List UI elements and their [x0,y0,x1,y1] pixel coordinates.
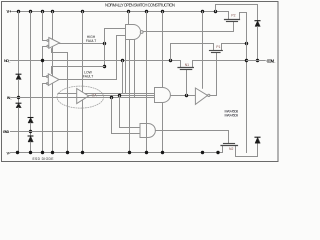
node G2 output / N1 gate [185,94,188,97]
wire high comparator return to V- [52,49,68,153]
svg-text:GND: GND [3,130,10,134]
node COM / diode column [256,59,259,62]
wire NO node up to high comparator input [43,47,47,61]
node V+ / clamp diode branch [214,10,217,13]
wire bias column x146 (V+ to V-) [146,12,148,153]
wire fault node down to NO sense joint [104,44,106,67]
wire GND line [11,131,83,133]
wire G2 output [171,95,195,97]
transistor N2 [221,144,238,157]
svg-text:FAULT: FAULT [86,39,96,43]
node ESD column 1 / IN line [17,96,20,99]
wire ESD column 2 upper segment [30,12,32,118]
diode D1a on ESD column 1 [16,74,21,79]
node V- / bias column x162 [161,151,164,154]
wire bias column x82 (V+ to V-) [82,12,84,153]
wire V- reference into low comparator input [43,84,47,153]
nand gate G1 [126,25,144,40]
wire switch node line N1 to COM [193,60,247,62]
node IN line tee [110,96,113,99]
svg-text:P2: P2 [231,14,235,18]
node high fault output tee [103,42,106,45]
wire V+ bypass to clamp diode D4 [216,5,258,21]
svg-text:N1: N1 [185,63,189,67]
node GND line / ESD column 2 [29,130,32,133]
node V- / comparator reference [41,151,44,154]
svg-text:N2: N2 [229,147,233,151]
node V+ / bias column x52 [51,10,54,13]
wire OA output bus line B [89,95,155,97]
node V- / bias column x146 [145,151,148,154]
comparator U2 LOW FAULT [46,74,59,86]
node COM / clamp column [245,59,248,62]
node NO / comparator tap [41,59,44,62]
svg-text:V+: V+ [7,9,13,14]
node NO / P1 parallel branch [169,59,172,62]
wire NAND output [143,23,233,32]
svg-text:MAX4509: MAX4509 [225,114,239,118]
svg-text:P1: P1 [216,45,220,49]
node V- / ESD column 1 [16,151,19,154]
wire NAND bottom-right pull-down to bus [134,40,136,98]
node V- / inverter return [201,151,204,154]
transistor P2 [225,12,240,22]
border frame [2,2,279,162]
transistor P1 [210,44,223,53]
wire V- rail [10,152,223,154]
wire V+ reference into high comparator inverting input [43,12,47,41]
wire IN logic line (bus line C) [11,97,155,99]
node V+ / bias column x162 [161,10,164,13]
wire low comparator region tap to sense joint [52,67,105,74]
inverter U3 [195,88,210,104]
wire ESD column 2 to GND line [30,123,32,136]
node V+ / inverter supply [201,10,204,13]
diode D2a on ESD column 2 [28,118,33,123]
node V- / bus return [128,151,131,154]
diode D4 (COM to V+ clamp) [255,21,260,27]
svg-text:ESD DIODE: ESD DIODE [33,157,55,161]
node V+ / bias column x146 [145,10,148,13]
wire P2 drain over to clamp column [240,13,247,153]
ellipse well buffer boundary [57,86,104,108]
wire NO node down to low comparator input [43,61,47,77]
and gate G3 (N2 clamp driver) [140,124,155,138]
wire IN tee down to AND2 input B [112,98,141,134]
wire ESD column 1 middle segment [18,80,20,103]
wire P1 parallel branch [171,44,214,61]
node V- / bias column x52 [51,151,54,154]
node V+ / ESD column 1 [17,10,20,13]
transistor N1 [178,61,193,70]
wire NAND bottom-left pull-down to bus [125,40,127,94]
wire P1 drain to clamp column [222,43,247,45]
wire COM line [247,60,266,62]
wire high comparator output [60,43,105,45]
wire low comparator output to NAND input B [59,36,126,80]
node NO sense joint [103,65,106,68]
node V+ / NAND supply [127,10,130,13]
wire inverter supply column [202,12,204,89]
node V- / comparator return [66,151,69,154]
node V+ / comparator reference [41,10,44,13]
wire N2 drain under-rail link to diode column [236,144,258,157]
wire bus tee down to AND2 input A [120,96,141,128]
node V- / ESD column 2 [29,151,32,154]
node bus line B tee [118,94,121,97]
diode D2b on ESD column 2 [28,136,33,142]
wire bias column x52 (V+ to V-) [52,12,54,153]
wire bus line A [58,93,155,95]
svg-text:FAULT: FAULT [83,75,93,79]
svg-text:COM_: COM_ [267,59,276,64]
node V- / N2 source [216,151,219,154]
diode D5 (COM to V- clamp) [255,137,260,143]
wire NO tap down to bus line A [122,61,124,94]
svg-text:NORMALLY OPEN SWITCH CONSTRUCT: NORMALLY OPEN SWITCH CONSTRUCTION [105,2,175,7]
wire fault output up to NAND input A [105,29,126,44]
wire V+ rail [12,11,228,13]
wire D4 cathode down to COM node [257,27,259,61]
wire ESD column 2 to V- rail [30,142,32,152]
op-amp OA [77,89,89,104]
svg-text:IN_: IN_ [7,96,13,100]
wire N1 gate lead [186,70,188,96]
wire inverter output riser to P1 gate [210,53,217,96]
wire bus return column to V- [129,40,131,153]
and gate G2 (switch driver) [155,88,171,103]
wire ESD column 1 lower segment [18,108,20,153]
wire bias column x162 (V+ to V-) [162,12,164,153]
wire NO signal line [10,60,181,62]
node V- / bias column x82 [81,151,84,154]
node V+ / bias column x82 [81,10,84,13]
wire ESD column 1 upper segment [18,12,20,75]
wire G3 output to N2 gate [155,131,228,144]
node V+ / ESD column 2 [29,10,32,13]
node P1 / clamp column [245,42,248,45]
diode D1b on ESD column 1 [16,103,21,107]
node NO / well-buffer tap [121,59,124,62]
comparator U1 HIGH FAULT [47,38,60,49]
wire NAND supply column [128,12,130,25]
